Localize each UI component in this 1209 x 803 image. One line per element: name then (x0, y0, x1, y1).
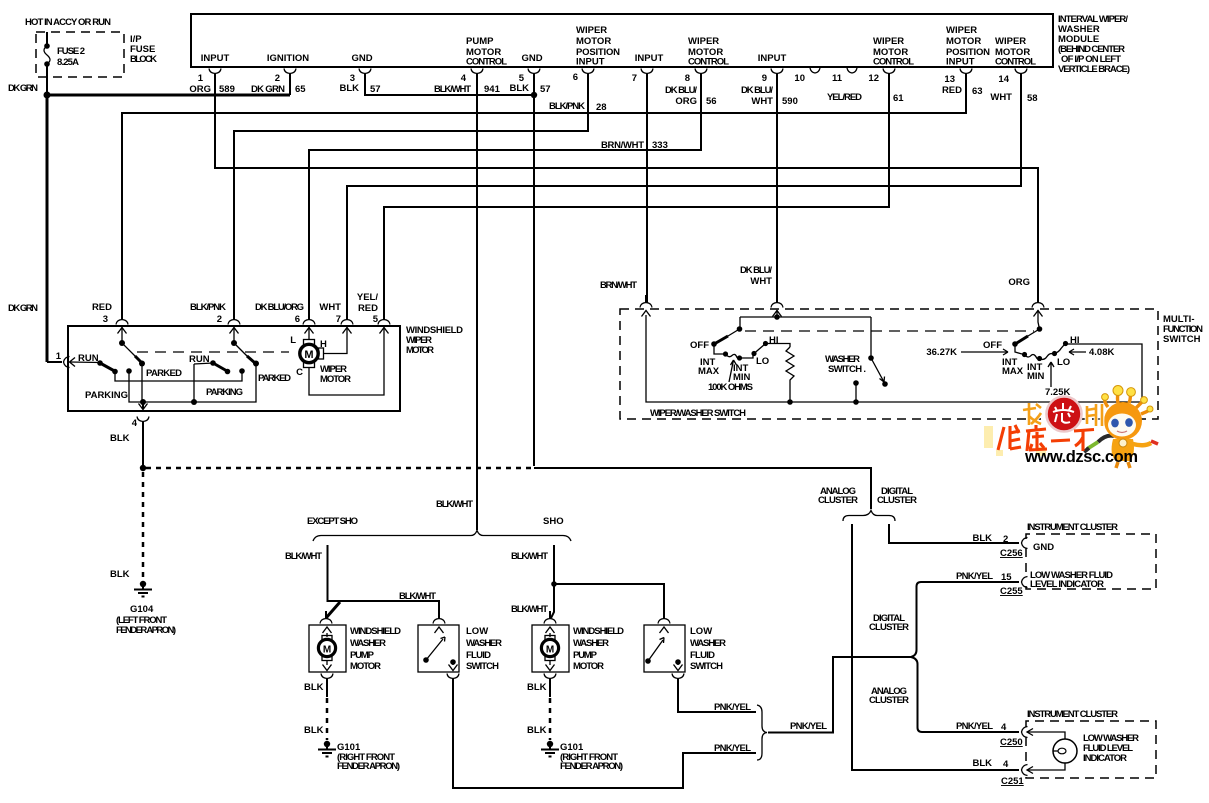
svg-text:LOW: LOW (466, 626, 488, 637)
svg-text:G104: G104 (130, 604, 154, 615)
svg-text:7: 7 (336, 314, 341, 325)
svg-text:1: 1 (56, 351, 62, 362)
svg-text:SHO: SHO (543, 516, 564, 527)
svg-text:LEVEL INDICATOR: LEVEL INDICATOR (1030, 579, 1104, 590)
svg-text:HI: HI (1070, 335, 1080, 346)
svg-text:BLK/WHT: BLK/WHT (436, 499, 473, 510)
svg-text:2: 2 (275, 73, 280, 84)
svg-text:MOTOR: MOTOR (946, 36, 981, 47)
svg-text:941: 941 (484, 84, 501, 95)
svg-text:OFF: OFF (690, 340, 709, 351)
svg-text:3: 3 (103, 314, 108, 325)
svg-text:BRN/WHT: BRN/WHT (600, 280, 637, 291)
svg-text:WIPER: WIPER (688, 36, 719, 47)
svg-text:CLUSTER: CLUSTER (869, 695, 909, 706)
svg-text:PARKED: PARKED (258, 373, 291, 384)
svg-text:WASHER: WASHER (690, 638, 726, 649)
svg-text:4: 4 (1003, 759, 1009, 770)
svg-text:GND: GND (351, 53, 372, 64)
svg-text:PNK/YEL: PNK/YEL (714, 743, 751, 754)
svg-text:GND: GND (521, 53, 542, 64)
svg-text:65: 65 (295, 84, 306, 95)
svg-text:C256: C256 (1000, 548, 1023, 559)
svg-text:2: 2 (217, 314, 222, 325)
svg-text:56: 56 (706, 96, 717, 107)
svg-text:BLK: BLK (509, 83, 529, 94)
svg-text:PUMP: PUMP (350, 650, 375, 661)
svg-text:PUMP: PUMP (573, 650, 598, 661)
svg-text:8.25A: 8.25A (57, 57, 79, 68)
svg-text:M: M (323, 645, 331, 656)
svg-text:590: 590 (782, 96, 798, 107)
svg-text:WIPER: WIPER (946, 25, 977, 36)
svg-text:DK GRN: DK GRN (251, 84, 285, 95)
svg-text:BLK/WHT: BLK/WHT (511, 551, 548, 562)
svg-text:HI: HI (769, 335, 779, 346)
svg-text:BLK/WHT: BLK/WHT (285, 551, 322, 562)
svg-text:SWITCH: SWITCH (1163, 334, 1201, 345)
svg-text:58: 58 (1027, 93, 1038, 104)
svg-text:WHT: WHT (990, 92, 1012, 103)
svg-text:63: 63 (972, 86, 983, 97)
svg-text:DK BLU/: DK BLU/ (740, 265, 772, 276)
svg-text:CLUSTER: CLUSTER (869, 622, 909, 633)
svg-text:100K OHMS: 100K OHMS (708, 382, 753, 393)
svg-text:OFF: OFF (983, 340, 1002, 351)
svg-text:ORG: ORG (189, 84, 211, 95)
svg-text:www.dzsc.com: www.dzsc.com (1024, 448, 1138, 466)
svg-text:BLK: BLK (527, 725, 547, 736)
svg-text:6: 6 (295, 314, 300, 325)
svg-text:57: 57 (540, 84, 551, 95)
svg-text:H: H (320, 339, 327, 350)
svg-text:DK GRN: DK GRN (8, 83, 38, 94)
svg-text:C255: C255 (1000, 586, 1023, 597)
svg-text:FENDER APRON): FENDER APRON) (116, 625, 176, 636)
svg-text:FENDER APRON): FENDER APRON) (337, 761, 400, 772)
svg-text:YEL/: YEL/ (357, 292, 378, 303)
svg-text:WIPER/WASHER SWITCH: WIPER/WASHER SWITCH (650, 408, 746, 419)
svg-text:PARKING: PARKING (85, 390, 128, 401)
svg-text:M: M (304, 349, 313, 361)
svg-text:7: 7 (632, 73, 637, 84)
svg-text:SWITCH: SWITCH (690, 661, 723, 672)
svg-text:M: M (546, 645, 554, 656)
svg-text:FLUID: FLUID (690, 650, 715, 661)
svg-text:CONTROL: CONTROL (466, 57, 507, 68)
svg-text:YEL/RED: YEL/RED (827, 92, 862, 103)
svg-text:VERTICLE BRACE): VERTICLE BRACE) (1058, 64, 1130, 75)
svg-text:4: 4 (1001, 722, 1007, 733)
svg-text:HOT IN ACCY OR RUN: HOT IN ACCY OR RUN (25, 17, 111, 28)
svg-text:WINDSHIELD: WINDSHIELD (350, 626, 401, 637)
svg-text:BLK: BLK (110, 569, 130, 580)
svg-text:SWITCH: SWITCH (466, 661, 499, 672)
svg-text:MAX: MAX (1002, 366, 1024, 377)
svg-text:11: 11 (832, 73, 843, 84)
svg-text:DK BLU/: DK BLU/ (665, 85, 697, 96)
svg-text:13: 13 (944, 74, 955, 85)
svg-text:WIPER: WIPER (995, 36, 1026, 47)
svg-text:SWITCH .: SWITCH . (828, 364, 866, 375)
svg-text:EXCEPT SHO: EXCEPT SHO (307, 516, 358, 527)
svg-text:WHT: WHT (750, 276, 772, 287)
svg-text:C251: C251 (1001, 776, 1024, 787)
svg-text:WIPER: WIPER (873, 36, 904, 47)
svg-text:WIPER: WIPER (576, 25, 607, 36)
svg-text:MOTOR: MOTOR (406, 345, 434, 356)
svg-text:DK BLU/ORG: DK BLU/ORG (255, 302, 304, 313)
svg-text:FLUID: FLUID (466, 650, 491, 661)
svg-text:INPUT: INPUT (758, 53, 787, 64)
svg-text:BLK: BLK (527, 682, 547, 693)
svg-text:BLK/WHT: BLK/WHT (399, 591, 436, 602)
svg-text:MOTOR: MOTOR (573, 661, 604, 672)
svg-text:BLK: BLK (304, 682, 324, 693)
svg-text:BLK: BLK (304, 725, 324, 736)
svg-text:6: 6 (573, 72, 578, 83)
svg-text:8: 8 (685, 73, 690, 84)
svg-text:DK BLU/: DK BLU/ (741, 85, 773, 96)
svg-text:RED: RED (942, 85, 962, 96)
svg-text:INPUT: INPUT (576, 57, 605, 68)
svg-text:PNK/YEL: PNK/YEL (956, 571, 993, 582)
svg-text:MAX: MAX (698, 366, 720, 377)
svg-text:LOW: LOW (690, 626, 712, 637)
svg-text:RED: RED (92, 302, 112, 313)
svg-text:INDICATOR: INDICATOR (1083, 753, 1127, 764)
svg-text:MOTOR: MOTOR (350, 661, 381, 672)
svg-text:LO: LO (756, 356, 769, 367)
svg-text:WASHER: WASHER (466, 638, 502, 649)
svg-text:BLK: BLK (972, 758, 992, 769)
svg-text:WINDSHIELD: WINDSHIELD (573, 626, 624, 637)
svg-text:MOTOR: MOTOR (320, 374, 351, 385)
svg-text:FENDER APRON): FENDER APRON) (560, 761, 623, 772)
svg-text:14: 14 (998, 74, 1009, 85)
svg-text:ORG: ORG (675, 96, 697, 107)
svg-text:CONTROL: CONTROL (995, 57, 1036, 68)
svg-text:CLUSTER: CLUSTER (877, 495, 917, 506)
svg-text:15: 15 (1001, 572, 1012, 583)
svg-text:57: 57 (370, 84, 381, 95)
svg-text:RUN: RUN (78, 353, 99, 364)
svg-text:BLK/WHT: BLK/WHT (434, 84, 471, 95)
svg-text:PUMP: PUMP (466, 36, 494, 47)
svg-text:MOTOR: MOTOR (576, 36, 611, 47)
svg-text:PARKING: PARKING (206, 387, 243, 398)
svg-text:L: L (290, 335, 296, 346)
svg-text:4.08K: 4.08K (1089, 347, 1114, 358)
svg-text:1: 1 (198, 73, 204, 84)
svg-text:BLK: BLK (339, 83, 359, 94)
svg-text:CONTROL: CONTROL (873, 57, 914, 68)
svg-text:LO: LO (1057, 357, 1070, 368)
svg-text:INPUT: INPUT (635, 53, 664, 64)
svg-text:2: 2 (1003, 534, 1008, 545)
svg-text:BLK/PNK: BLK/PNK (549, 101, 585, 112)
svg-text:IGNITION: IGNITION (267, 53, 309, 64)
svg-text:PNK/YEL: PNK/YEL (714, 702, 751, 713)
svg-text:ORG: ORG (1008, 277, 1030, 288)
svg-text:WHT: WHT (751, 96, 773, 107)
svg-text:28: 28 (596, 102, 607, 113)
svg-text:WHT: WHT (319, 302, 341, 313)
svg-text:C250: C250 (1000, 737, 1023, 748)
svg-text:BLK/WHT: BLK/WHT (511, 604, 548, 615)
svg-text:12: 12 (868, 73, 879, 84)
svg-text:FUSE 2: FUSE 2 (57, 46, 85, 57)
svg-text:INSTRUMENT CLUSTER: INSTRUMENT CLUSTER (1027, 709, 1118, 720)
svg-text:GND: GND (1033, 542, 1054, 553)
svg-text:36.27K: 36.27K (926, 347, 957, 358)
svg-text:589: 589 (219, 84, 235, 95)
svg-text:10: 10 (794, 73, 805, 84)
svg-text:4: 4 (461, 73, 467, 84)
svg-text:RED: RED (358, 303, 378, 314)
svg-text:BLOCK: BLOCK (130, 54, 157, 65)
svg-text:INPUT: INPUT (201, 53, 230, 64)
svg-text:9: 9 (762, 73, 767, 84)
svg-text:CONTROL: CONTROL (688, 57, 729, 68)
svg-text:DK GRN: DK GRN (8, 303, 38, 314)
svg-text:C: C (296, 367, 303, 378)
svg-text:PNK/YEL: PNK/YEL (956, 721, 993, 732)
svg-text:WASHER: WASHER (573, 638, 609, 649)
svg-text:INPUT: INPUT (946, 57, 975, 68)
svg-text:BLK: BLK (972, 533, 992, 544)
svg-text:61: 61 (893, 93, 904, 104)
svg-text:PNK/YEL: PNK/YEL (790, 721, 827, 732)
svg-text:MIN: MIN (1027, 371, 1045, 382)
svg-text:INSTRUMENT CLUSTER: INSTRUMENT CLUSTER (1027, 522, 1118, 533)
svg-text:4: 4 (132, 418, 138, 429)
svg-text:WASHER: WASHER (350, 638, 386, 649)
svg-text:BLK/PNK: BLK/PNK (190, 302, 226, 313)
svg-text:BLK: BLK (110, 433, 130, 444)
svg-text:CLUSTER: CLUSTER (818, 495, 858, 506)
svg-text:PARKED: PARKED (146, 368, 182, 379)
